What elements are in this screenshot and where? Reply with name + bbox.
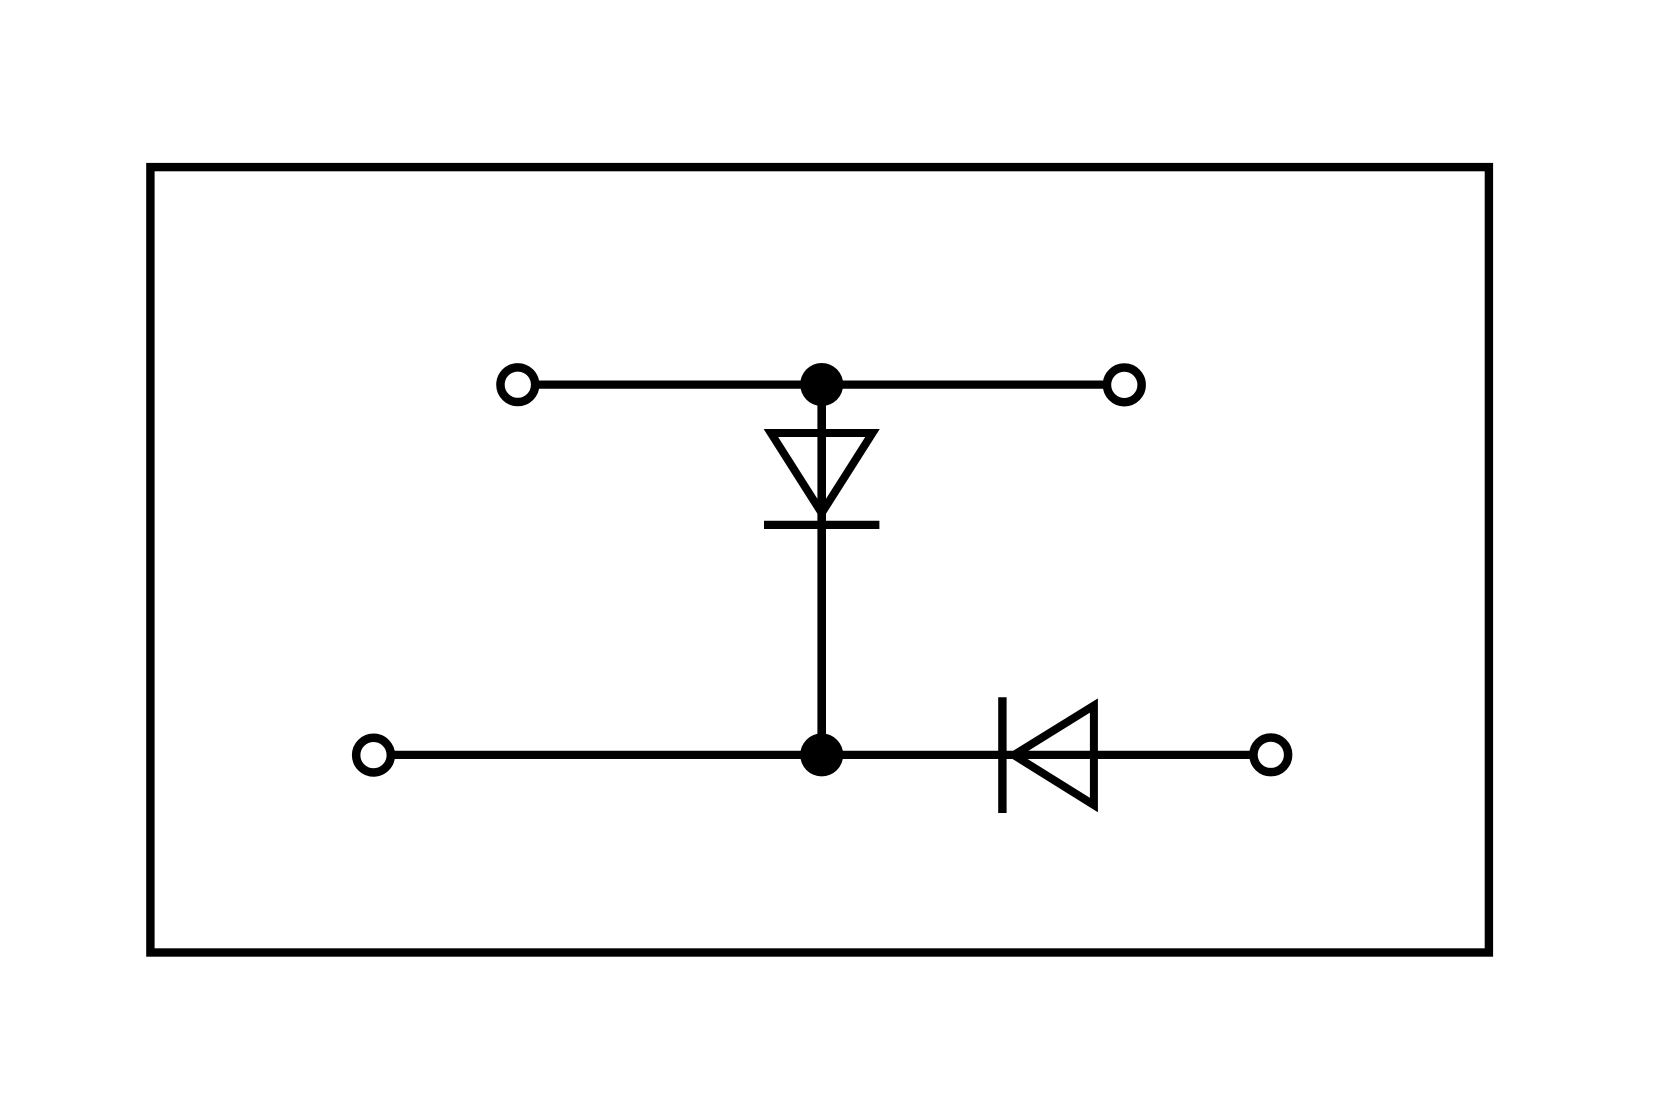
terminal node (bottom right) — [1253, 737, 1288, 772]
junction node (top) — [800, 363, 843, 406]
terminal node (top right) — [1107, 368, 1142, 403]
wire: vertical link — [817, 385, 826, 755]
diode D1 cathode bar — [764, 521, 879, 529]
wire: bottom rail — [374, 751, 1271, 759]
wire: top rail — [518, 380, 1125, 388]
terminal node (bottom left) — [356, 738, 391, 773]
diode D2 (pointing left) triangle — [1014, 706, 1094, 806]
diode D2 cathode bar — [998, 697, 1006, 813]
terminal node (top left) — [500, 367, 535, 402]
enclosure frame — [150, 167, 1489, 952]
junction node (bottom) — [800, 733, 843, 776]
diode D1 (anode up, cathode down) triangle — [771, 433, 873, 513]
